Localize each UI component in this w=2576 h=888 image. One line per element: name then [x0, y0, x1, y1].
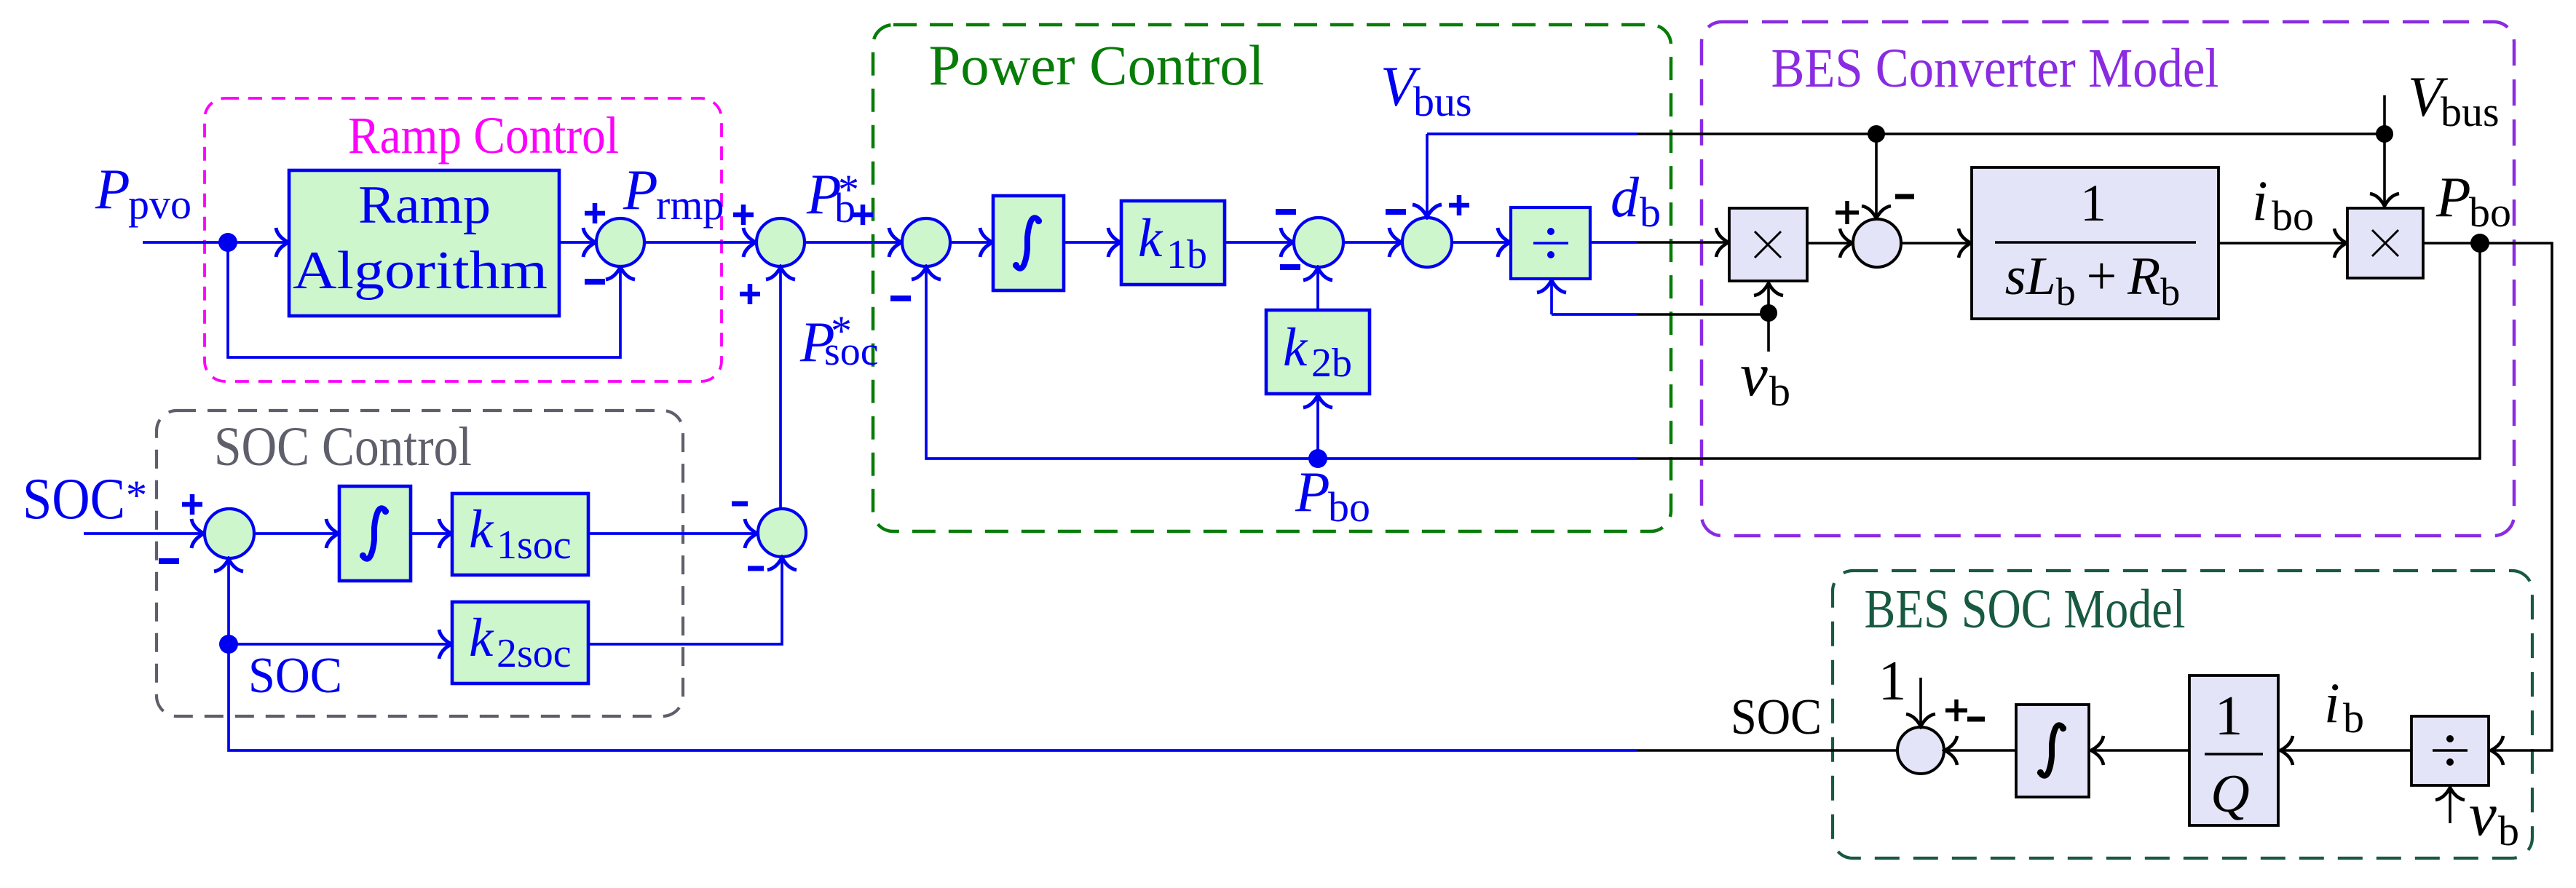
svg-text:i: i	[2252, 169, 2268, 232]
svg-text:k: k	[469, 499, 494, 560]
svg-text:P: P	[95, 157, 130, 221]
svg-text:Power Control: Power Control	[929, 33, 1265, 97]
svg-text:sLb + Rb: sLb + Rb	[2005, 247, 2181, 314]
svg-text:1b: 1b	[1166, 232, 1207, 277]
svg-text:v: v	[1740, 341, 1768, 409]
svg-text:SOC: SOC	[23, 467, 125, 531]
svg-text:BES SOC Model: BES SOC Model	[1865, 579, 2186, 640]
svg-text:k: k	[1138, 208, 1163, 269]
svg-text:k: k	[1283, 317, 1308, 378]
svg-text:BES Converter Model: BES Converter Model	[1771, 38, 2219, 99]
svg-text:SOC Control: SOC Control	[214, 416, 472, 477]
svg-text:1: 1	[2080, 174, 2106, 232]
svg-text:2soc: 2soc	[497, 631, 572, 676]
svg-text:2b: 2b	[1311, 341, 1352, 386]
svg-text:SOC: SOC	[1731, 689, 1822, 745]
svg-text:bo: bo	[1328, 483, 1370, 531]
svg-text:SOC: SOC	[248, 648, 342, 704]
svg-text:P: P	[2435, 165, 2471, 229]
svg-text:b: b	[2498, 807, 2519, 855]
svg-text:1soc: 1soc	[497, 523, 572, 568]
svg-text:b: b	[2343, 694, 2364, 742]
svg-text:1: 1	[1878, 649, 1907, 712]
svg-text:b: b	[834, 184, 856, 231]
svg-text:b: b	[1640, 189, 1661, 236]
svg-text:k: k	[469, 608, 494, 668]
svg-text:P: P	[1295, 460, 1330, 523]
svg-text:v: v	[2469, 780, 2497, 849]
svg-text:Ramp Control: Ramp Control	[348, 106, 619, 164]
svg-text:bo: bo	[2469, 189, 2511, 236]
svg-text:1: 1	[2215, 684, 2243, 747]
svg-text:b: b	[1769, 368, 1790, 415]
svg-text:bus: bus	[2441, 88, 2500, 135]
svg-text:soc: soc	[824, 329, 879, 374]
svg-text:bus: bus	[1413, 78, 1472, 125]
svg-text:bo: bo	[2272, 192, 2314, 239]
svg-text:rmp: rmp	[656, 181, 724, 229]
svg-text:Ramp: Ramp	[358, 175, 491, 235]
svg-text:*: *	[126, 472, 147, 519]
svg-text:Q: Q	[2210, 764, 2249, 824]
svg-text:d: d	[1611, 165, 1640, 229]
svg-text:P: P	[623, 158, 658, 221]
svg-text:pvo: pvo	[128, 181, 191, 228]
svg-text:i: i	[2324, 671, 2340, 734]
svg-text:Algorithm: Algorithm	[293, 241, 548, 301]
